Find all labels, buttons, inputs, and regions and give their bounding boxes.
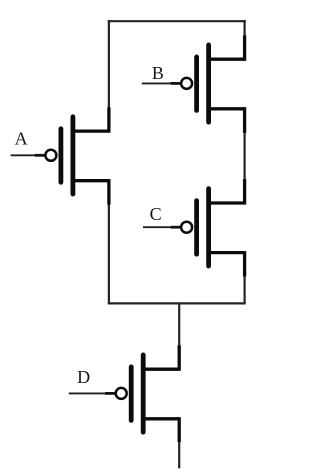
node A input wire xyxy=(11,154,46,156)
transistor Q_D source stub down xyxy=(178,417,181,442)
node C input wire tip xyxy=(171,226,181,229)
transistor Q_B source lead (top) xyxy=(209,58,245,61)
transistor Q_A source stub up xyxy=(107,107,110,132)
node D input wire xyxy=(69,392,116,394)
transistor Q_D drain lead (top) xyxy=(143,368,179,371)
wire right rail segment below C xyxy=(244,276,246,303)
transistor Q_D gate bubble xyxy=(116,388,127,399)
transistor Q_A drain lead (bottom) xyxy=(73,179,109,182)
transistor Q_D drain stub up xyxy=(178,345,181,370)
transistor Q_C source stub up xyxy=(243,179,246,204)
wire right rail segment between B and C xyxy=(244,132,246,180)
transistor Q_B gate bar xyxy=(194,57,199,111)
node B input wire tip xyxy=(171,82,181,85)
transistor Q_B source stub up xyxy=(243,35,246,60)
node C input wire xyxy=(143,226,181,228)
transistor Q_B drain lead (bottom) xyxy=(209,107,245,110)
transistor Q_C gate bar xyxy=(194,201,199,255)
wire left rail upper segment xyxy=(108,20,110,110)
transistor Q_C drain stub down xyxy=(243,251,246,276)
transistor Q_D gate bar xyxy=(129,367,134,421)
wire bottom rail (output node) xyxy=(108,302,246,304)
transistor Q_A source lead (top) xyxy=(73,129,109,132)
svg-text:C: C xyxy=(150,204,162,224)
transistor Q_C source lead (top) xyxy=(209,201,245,204)
node A input wire tip xyxy=(35,154,45,157)
transistor Q_A gate bar xyxy=(59,129,64,183)
svg-text:D: D xyxy=(77,367,90,387)
node D input wire tip xyxy=(105,392,115,395)
wire right rail segment above B xyxy=(244,20,246,36)
transistor Q_C gate bubble xyxy=(181,222,192,233)
transistor Q_D source lead (bottom) xyxy=(143,417,179,420)
svg-text:A: A xyxy=(15,129,28,149)
transistor Q_B gate bubble xyxy=(181,78,192,89)
wire output drop to D xyxy=(178,302,180,346)
transistor Q_C channel bar xyxy=(206,189,211,266)
wire top rail (VDD side) xyxy=(108,20,246,22)
transistor Q_A channel bar xyxy=(71,117,76,194)
transistor Q_B drain stub down xyxy=(243,107,246,133)
transistor Q_C drain lead (bottom) xyxy=(209,251,245,254)
transistor Q_B channel bar xyxy=(206,45,211,122)
svg-text:B: B xyxy=(152,63,164,83)
transistor Q_A drain stub down xyxy=(107,179,110,205)
transistor Q_D channel bar xyxy=(141,355,146,432)
node B input wire xyxy=(142,82,181,84)
wire left rail lower segment xyxy=(108,204,110,303)
wire D source tail xyxy=(178,442,180,469)
transistor Q_A gate bubble xyxy=(45,150,56,161)
